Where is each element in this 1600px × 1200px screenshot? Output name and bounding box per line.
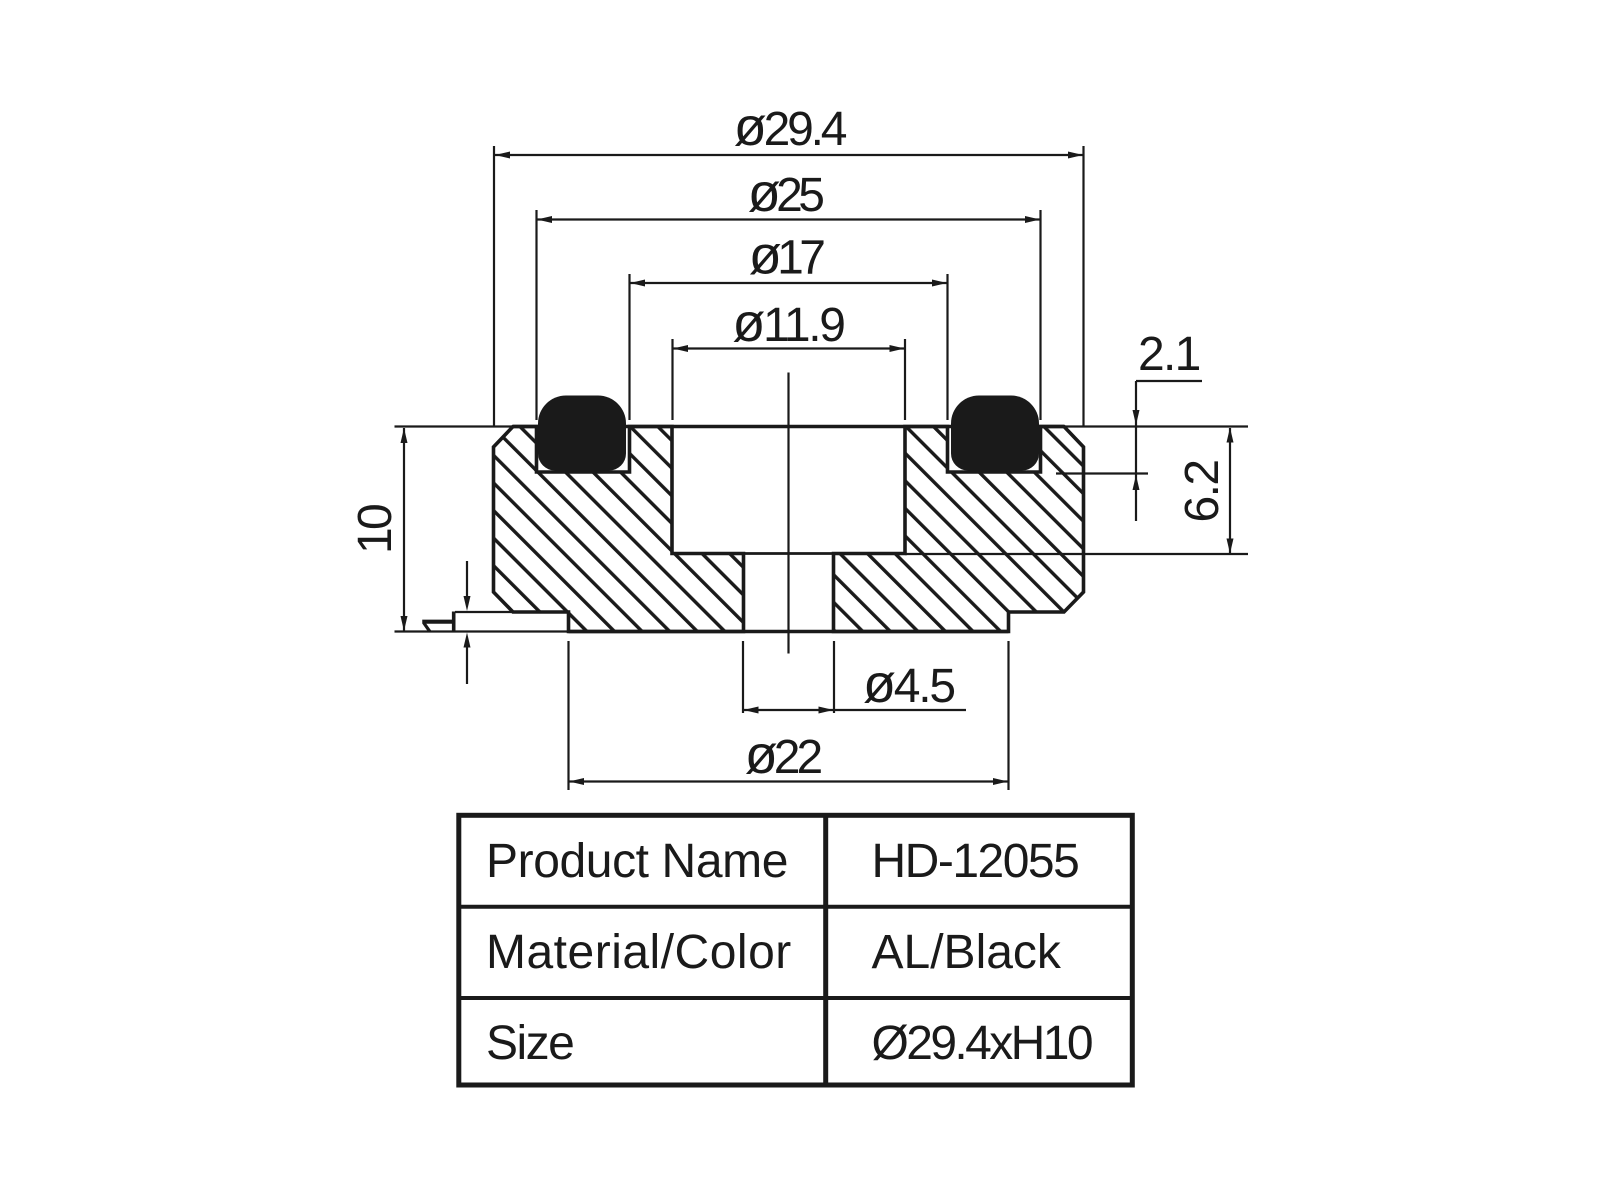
dimension ø11.9 line <box>673 347 905 349</box>
dimension ø17 extension lines <box>630 274 948 420</box>
dimension ø22 line <box>569 780 1008 782</box>
dimension 2.1 line <box>1135 381 1137 521</box>
o-ring section right (black) <box>951 396 1039 471</box>
o-ring section left (black) <box>538 396 626 471</box>
dimension ø29.4 extension lines <box>494 146 1084 426</box>
svg-text:ø25: ø25 <box>748 163 823 223</box>
counterbore floor edge line <box>672 552 905 555</box>
dimension 10 arrowheads <box>401 428 408 443</box>
title block row divider 2 <box>459 996 1133 1000</box>
dimension ø25 arrowheads <box>537 216 552 223</box>
svg-text:6.2: 6.2 <box>1176 461 1229 523</box>
dimension 6.2 arrowheads <box>1227 428 1234 443</box>
dimension ø17 arrowheads <box>630 280 645 287</box>
svg-text:HD-12055: HD-12055 <box>872 835 1079 888</box>
dimension ø4.5 arrowheads <box>744 707 759 714</box>
dimension 10 extension lines <box>395 427 569 632</box>
svg-text:ø29.4: ø29.4 <box>734 97 847 157</box>
left half of sectioned body (hatched cross-section) <box>494 427 744 632</box>
title block table border <box>459 815 1133 1085</box>
title block column divider <box>823 815 828 1085</box>
svg-text:ø17: ø17 <box>749 226 824 286</box>
dimension ø4.5 extension lines <box>743 641 834 713</box>
svg-text:ø22: ø22 <box>745 725 822 785</box>
dimension 1 arrowheads <box>464 596 471 611</box>
bottom face edge line <box>569 630 1009 634</box>
dimension ø29.4 arrowheads <box>495 152 510 159</box>
dimension ø29.4 line <box>495 154 1083 156</box>
dimension 6.2 bottom extension line <box>905 553 1248 555</box>
top face edge line <box>513 425 1064 429</box>
svg-text:2.1: 2.1 <box>1138 328 1200 381</box>
dimension ø25 extension lines <box>537 210 1041 420</box>
svg-text:Material/Color: Material/Color <box>486 926 792 979</box>
dimension ø22 arrowheads <box>569 778 584 785</box>
dimension ø11.9 extension lines <box>673 339 906 420</box>
dimension 1 reference tick at step face <box>455 611 513 613</box>
dimension 2.1 reference lines (top face extension, groove bottom extension, top tick) <box>1056 381 1248 474</box>
dimension ø11.9 arrowheads <box>673 345 688 352</box>
svg-text:AL/Black: AL/Black <box>872 926 1062 979</box>
dimension ø22 extension lines <box>569 641 1009 790</box>
dimension 10 line <box>403 428 405 631</box>
title block row divider 1 <box>459 905 1133 909</box>
svg-text:Product Name: Product Name <box>486 835 788 888</box>
dimension 1 leader lines <box>466 561 468 684</box>
svg-text:Size: Size <box>486 1017 573 1070</box>
svg-text:1: 1 <box>414 609 467 636</box>
dimension 2.1 arrowheads <box>1133 410 1140 425</box>
vertical center axis line <box>787 373 789 654</box>
svg-text:10: 10 <box>349 505 402 554</box>
dimension 6.2 line <box>1229 428 1231 553</box>
svg-text:ø4.5: ø4.5 <box>863 654 954 714</box>
svg-text:Ø29.4xH10: Ø29.4xH10 <box>872 1017 1092 1070</box>
svg-text:ø11.9: ø11.9 <box>732 293 844 353</box>
dimension ø4.5 line with leader <box>744 709 967 711</box>
right half of sectioned body (hatched cross-section) <box>834 427 1084 632</box>
dimension ø25 line <box>537 218 1040 220</box>
dimension ø17 line <box>630 282 947 284</box>
